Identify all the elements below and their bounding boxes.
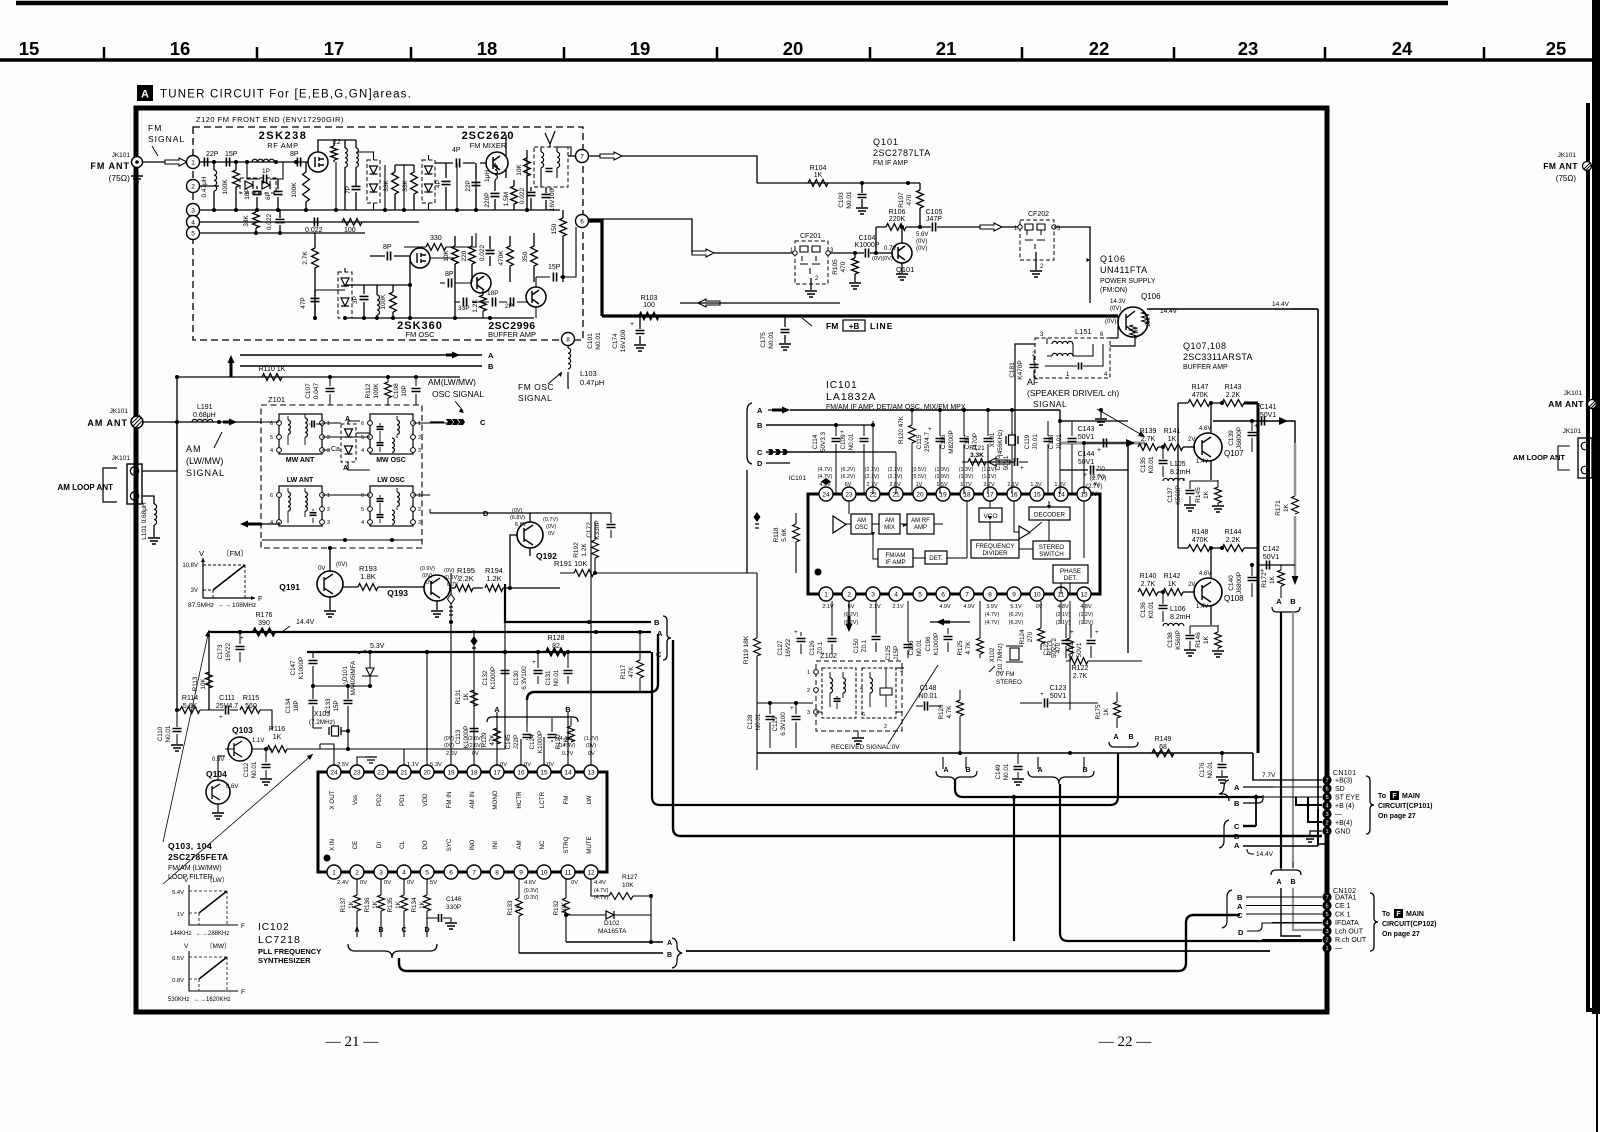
svg-text:FM MIXER: FM MIXER	[470, 141, 507, 150]
svg-text:(0V): (0V)	[1105, 319, 1116, 325]
wire input row	[199, 161, 306, 163]
svg-text:NC: NC	[539, 840, 546, 849]
svg-text:C136: C136	[1140, 602, 1147, 618]
svg-text:19: 19	[939, 491, 947, 498]
CN101 pin 3 —	[1322, 809, 1331, 818]
open arrow on +B	[698, 299, 720, 307]
svg-text:(10.7MHz): (10.7MHz)	[997, 643, 1004, 672]
svg-text:8P: 8P	[445, 271, 454, 278]
svg-text:C176: C176	[1199, 762, 1206, 778]
svg-text:(1.9V): (1.9V)	[935, 474, 950, 480]
svg-text:C138: C138	[1167, 632, 1174, 648]
svg-text:21: 21	[400, 769, 408, 776]
inductor L103 0.47uH	[567, 346, 569, 348]
svg-text:(2.1V): (2.1V)	[1056, 612, 1071, 618]
svg-text:0V: 0V	[318, 566, 325, 572]
svg-text:(2.1V): (2.1V)	[1056, 620, 1071, 626]
CN102 pin 5 CK 1	[1322, 909, 1331, 918]
svg-text:CIRCUIT(CP102): CIRCUIT(CP102)	[1382, 921, 1436, 928]
svg-text:CK 1: CK 1	[1335, 912, 1351, 919]
svg-text:+: +	[1095, 629, 1099, 636]
svg-text:C120: C120	[995, 455, 1002, 471]
svg-text:R149: R149	[1155, 736, 1172, 743]
svg-text:N0.01: N0.01	[916, 639, 923, 656]
ruler tick marks	[103, 47, 106, 60]
svg-text:23: 23	[845, 491, 853, 498]
svg-text:22: 22	[1089, 38, 1110, 59]
svg-text:JK101: JK101	[1563, 428, 1582, 435]
svg-text:C148: C148	[920, 685, 937, 692]
svg-text:3: 3	[418, 448, 421, 454]
svg-text:(0V): (0V)	[512, 508, 523, 514]
svg-text:C112: C112	[243, 762, 250, 777]
svg-text:470: 470	[840, 261, 847, 272]
svg-text:L106: L106	[1170, 606, 1186, 613]
svg-text:1: 1	[418, 421, 421, 427]
svg-text:MW ANT: MW ANT	[286, 457, 315, 464]
svg-text:Q101: Q101	[873, 137, 899, 147]
svg-text:1.2K: 1.2K	[472, 299, 479, 313]
diode pair dashed box	[240, 178, 276, 193]
IC101 pin 10	[1030, 587, 1044, 601]
svg-text:Z120 FM FRONT END (ENV1729: Z120 FM FRONT END (ENV17290GIR)	[196, 115, 344, 124]
svg-text:1.4V: 1.4V	[1196, 604, 1208, 610]
svg-text:CF202: CF202	[1028, 211, 1049, 218]
svg-text:5.3V: 5.3V	[370, 643, 385, 650]
node marker R119 top	[754, 512, 761, 522]
svg-text:5.6K: 5.6K	[781, 528, 788, 542]
svg-text:(0V): (0V)	[336, 562, 347, 568]
svg-text:FM/AM (LW/MW): FM/AM (LW/MW)	[168, 865, 222, 872]
CN101 right bracket labels	[1219, 780, 1229, 801]
transistor Q193	[424, 575, 450, 601]
svg-text:6: 6	[361, 493, 364, 499]
svg-text:(456KHz): (456KHz)	[997, 430, 1004, 457]
svg-text:47P: 47P	[300, 297, 307, 309]
svg-text:— 21 —: — 21 —	[325, 1034, 380, 1050]
svg-text:220: 220	[461, 250, 468, 261]
svg-text:4.6V: 4.6V	[524, 880, 536, 886]
svg-text:C150: C150	[853, 638, 860, 654]
svg-text:R117: R117	[620, 664, 627, 679]
svg-text:(1.3V): (1.3V)	[959, 467, 974, 473]
IC102 pin 8 INI	[490, 865, 504, 879]
svg-text:C: C	[757, 448, 763, 457]
svg-text:6.5V: 6.5V	[172, 956, 184, 962]
svg-text:C114: C114	[812, 434, 819, 449]
wire pin6 thick to FM+B	[588, 221, 602, 316]
svg-text:14.3V: 14.3V	[1110, 299, 1126, 305]
svg-text:SYNTHESIZER: SYNTHESIZER	[258, 956, 311, 965]
hatched AF wire	[1060, 442, 1145, 445]
svg-text:R121: R121	[969, 445, 985, 452]
Z102 transformer B	[862, 668, 896, 718]
bus A2/B2 down	[1060, 784, 1322, 941]
wire osc gate	[345, 258, 534, 318]
svg-text:C134: C134	[285, 698, 292, 714]
A B C D bracket left of IC101	[747, 403, 752, 464]
svg-text:A: A	[488, 351, 494, 360]
svg-text:PLL FREQUENCY: PLL FREQUENCY	[258, 947, 321, 956]
svg-text:16V22: 16V22	[225, 642, 232, 661]
transformer LW ANT	[279, 486, 322, 526]
wire CF202 out	[1054, 227, 1090, 303]
svg-text:L103: L103	[580, 369, 597, 378]
svg-text:50V1: 50V1	[1076, 642, 1083, 657]
svg-text:OSC: OSC	[855, 525, 869, 531]
svg-text:(4.7V): (4.7V)	[594, 888, 609, 894]
svg-text:X OUT: X OUT	[329, 790, 336, 809]
svg-text:1.7V: 1.7V	[960, 482, 972, 488]
long vertical buses right	[1257, 403, 1260, 565]
svg-text:C: C	[1234, 822, 1240, 831]
svg-text:(0V): (0V)	[916, 239, 927, 245]
svg-text:LINE: LINE	[870, 321, 893, 331]
facing page frame edge	[1588, 103, 1600, 1010]
svg-text:100K: 100K	[373, 383, 380, 399]
svg-text:1: 1	[332, 869, 336, 876]
svg-text:5: 5	[918, 591, 922, 598]
svg-text:1V: 1V	[916, 482, 923, 488]
IC102 pin 9 AM	[514, 865, 528, 879]
svg-text:2.4V: 2.4V	[337, 880, 349, 886]
svg-text:A: A	[1113, 734, 1118, 741]
svg-text:R120 47K: R120 47K	[898, 415, 905, 444]
svg-text:CN101: CN101	[1333, 770, 1356, 777]
svg-text:K1000P: K1000P	[933, 633, 940, 655]
svg-text:D102: D102	[604, 920, 620, 927]
svg-text:8: 8	[566, 336, 570, 343]
svg-text:N0.01: N0.01	[848, 433, 855, 450]
svg-text:FM: FM	[148, 123, 162, 133]
svg-text:11: 11	[565, 869, 572, 876]
svg-text:JK101: JK101	[1564, 390, 1583, 397]
CN102 pin 7 DATA1	[1322, 892, 1331, 901]
svg-text:C131: C131	[545, 670, 552, 686]
svg-text:50V1: 50V1	[1078, 459, 1094, 466]
svg-text:Q103: Q103	[232, 725, 253, 735]
svg-text:Z101: Z101	[268, 395, 285, 404]
front end pin 6	[576, 215, 589, 228]
svg-text:D: D	[1238, 928, 1244, 937]
IC102 pin 23 Vss	[350, 765, 364, 779]
svg-text:N0.01: N0.01	[755, 713, 762, 730]
svg-text:GND: GND	[1335, 829, 1351, 836]
svg-text:(FM:ON): (FM:ON)	[1100, 287, 1127, 294]
svg-text:19: 19	[630, 38, 651, 59]
svg-text:9: 9	[519, 869, 523, 876]
svg-text:AM: AM	[885, 518, 894, 524]
svg-text:1.5M: 1.5M	[503, 192, 510, 206]
IC101 pin 1	[819, 587, 833, 601]
svg-text:CE 1: CE 1	[1335, 903, 1351, 910]
svg-text:2.2K: 2.2K	[458, 574, 473, 583]
svg-text:+: +	[630, 321, 634, 328]
svg-text:FM/AM: FM/AM	[886, 552, 906, 559]
svg-text:N0.01: N0.01	[251, 761, 258, 778]
CN101 pin 7 +B(3)	[1322, 775, 1331, 784]
svg-text:2.2K: 2.2K	[1226, 537, 1241, 544]
svg-text:CE: CE	[352, 841, 359, 850]
svg-text:F: F	[258, 596, 262, 603]
svg-text:18: 18	[477, 38, 498, 59]
svg-text:50V2.2: 50V2.2	[1051, 638, 1058, 658]
svg-text:330: 330	[430, 235, 442, 242]
svg-text:R140: R140	[1140, 573, 1157, 580]
svg-text:3: 3	[1325, 812, 1328, 818]
svg-text:100K: 100K	[291, 182, 298, 198]
svg-text:R137: R137	[340, 897, 347, 913]
varactor dashed box1	[367, 160, 380, 203]
svg-text:(1.1V): (1.1V)	[982, 474, 997, 480]
svg-text:C113: C113	[455, 729, 462, 744]
svg-text:4.6V: 4.6V	[1199, 571, 1211, 577]
svg-text:LW ANT: LW ANT	[287, 477, 314, 484]
svg-text:0V: 0V	[472, 751, 479, 757]
svg-text:C146: C146	[446, 896, 462, 903]
svg-text:8: 8	[495, 869, 499, 876]
IC101 pin 11	[1054, 587, 1068, 601]
svg-text:C141: C141	[1260, 404, 1277, 411]
svg-text:1V: 1V	[177, 912, 184, 918]
svg-text:5: 5	[361, 435, 364, 441]
svg-text:SIGNAL: SIGNAL	[1033, 399, 1067, 409]
svg-text:C172: C172	[586, 522, 593, 538]
right page black bar	[1592, 0, 1600, 1014]
svg-text:To: To	[1382, 911, 1390, 918]
svg-text:4.6V: 4.6V	[1199, 426, 1211, 432]
transistor Q101	[892, 243, 912, 263]
svg-text:8: 8	[988, 591, 992, 598]
svg-text:20: 20	[783, 38, 804, 59]
svg-text:R175: R175	[1095, 704, 1102, 720]
svg-text:(6.2V): (6.2V)	[841, 467, 856, 473]
svg-text:7P: 7P	[345, 186, 352, 194]
svg-text:Z102: Z102	[820, 651, 837, 660]
svg-text:INI: INI	[492, 841, 499, 849]
wire FM ANT to front end	[142, 161, 193, 163]
svg-text:16V100: 16V100	[620, 329, 627, 352]
wire pin6 branch	[588, 219, 795, 253]
svg-text:0.68μH: 0.68μH	[193, 412, 216, 419]
IC101 pin 13	[1077, 487, 1091, 501]
IC101 block AM OSC	[851, 514, 872, 534]
svg-text:—: —	[1335, 946, 1342, 953]
coil tank1	[345, 148, 347, 167]
svg-text:STEREO: STEREO	[996, 679, 1022, 686]
svg-text:0V: 0V	[571, 880, 578, 886]
svg-text:ST EYE: ST EYE	[1335, 795, 1360, 802]
svg-text:FM IF AMP: FM IF AMP	[873, 160, 908, 167]
transformer LW OSC	[370, 486, 413, 526]
svg-text:+: +	[240, 635, 244, 642]
CN101 brace + note	[1366, 776, 1374, 834]
svg-text:C108: C108	[393, 383, 400, 399]
svg-text:22P: 22P	[206, 151, 219, 158]
svg-text:R112: R112	[365, 383, 372, 398]
svg-text:R144: R144	[1225, 529, 1242, 536]
svg-text:5: 5	[425, 869, 429, 876]
svg-text:Vss: Vss	[352, 795, 359, 805]
svg-text:FM IN: FM IN	[446, 792, 453, 809]
svg-text:TUNER CIRCUIT For [E,EB,G,GN]: TUNER CIRCUIT For [E,EB,G,GN]areas.	[160, 89, 412, 101]
svg-text:2.1V: 2.1V	[869, 604, 881, 610]
svg-text:+: +	[1040, 691, 1044, 698]
svg-text:87.5MHz: 87.5MHz	[188, 602, 214, 609]
svg-text:14.4V: 14.4V	[296, 619, 315, 626]
svg-text:0V: 0V	[547, 762, 554, 768]
IC102 pin 1 X IN	[327, 865, 341, 879]
svg-text:1K: 1K	[1269, 575, 1276, 584]
svg-text:10.8V: 10.8V	[182, 563, 198, 569]
CN102 pin 2 R.ch OUT	[1322, 935, 1331, 944]
svg-text:4P: 4P	[435, 180, 442, 188]
IC101 block FM/AM IF AMP	[878, 549, 913, 567]
svg-text:C110: C110	[157, 726, 164, 741]
svg-text:AMP: AMP	[914, 525, 927, 531]
CN101 pin 2 +B(4)	[1322, 818, 1331, 827]
svg-text:(1.9V): (1.9V)	[935, 467, 950, 473]
brace AB right	[672, 938, 682, 968]
svg-text:1.5V: 1.5V	[936, 482, 948, 488]
svg-text:A: A	[141, 89, 149, 101]
svg-text:(6.2V): (6.2V)	[841, 474, 856, 480]
svg-text:(4.7V): (4.7V)	[818, 467, 833, 473]
svg-text:4.9V: 4.9V	[963, 604, 975, 610]
svg-text:150: 150	[551, 223, 558, 234]
front end pin 8	[562, 333, 575, 346]
CN101 wires	[1253, 779, 1322, 781]
svg-text:4: 4	[361, 448, 364, 454]
svg-text:470: 470	[906, 194, 913, 205]
IC101 signal wires A B C D	[790, 409, 1060, 411]
svg-text:B: B	[1234, 799, 1240, 808]
svg-text:N0.01: N0.01	[1003, 763, 1010, 780]
callout arrow AF	[1097, 409, 1142, 435]
svg-text:R128: R128	[548, 635, 565, 642]
IC102 pin 21 PD1	[397, 765, 411, 779]
svg-text:R124: R124	[1019, 629, 1026, 645]
svg-text:R133: R133	[507, 900, 514, 916]
long horizontal received-signal bus	[757, 752, 1253, 754]
svg-text:IC102: IC102	[258, 922, 290, 933]
svg-text:50V1: 50V1	[1003, 455, 1010, 470]
svg-text:18P: 18P	[487, 290, 499, 297]
svg-text:On page 27: On page 27	[1382, 931, 1420, 938]
coil tank2	[356, 148, 358, 167]
svg-text:220K: 220K	[889, 216, 906, 223]
bus vertical 1 to CN101	[652, 652, 1118, 805]
svg-text:(7.2MHz): (7.2MHz)	[309, 719, 335, 726]
svg-text:C143: C143	[1078, 426, 1095, 433]
svg-text:10K: 10K	[443, 250, 450, 262]
IC102 pin 16 HCTR	[514, 765, 528, 779]
FET 2SK360	[410, 248, 430, 268]
svg-text:SIGNAL: SIGNAL	[518, 393, 552, 403]
svg-text:SD: SD	[1335, 786, 1345, 793]
svg-text:R176: R176	[256, 612, 273, 619]
svg-text:10: 10	[540, 869, 548, 876]
svg-text:0V: 0V	[360, 880, 367, 886]
svg-text:B: B	[1234, 832, 1240, 841]
svg-text:N0.01: N0.01	[595, 332, 602, 350]
svg-text:F: F	[1396, 911, 1401, 918]
svg-text:25V4.7: 25V4.7	[216, 703, 238, 710]
svg-text:R171: R171	[1275, 500, 1282, 516]
svg-text:1K: 1K	[1203, 490, 1210, 499]
svg-text:〔FM〕: 〔FM〕	[222, 549, 248, 558]
svg-text:J0.01: J0.01	[1032, 434, 1039, 450]
svg-text:A: A	[343, 465, 348, 472]
svg-text:R129: R129	[481, 732, 488, 748]
wire pin7 to IF strip	[588, 156, 757, 183]
svg-text:(2.1V): (2.1V)	[865, 474, 880, 480]
svg-text:R115: R115	[243, 695, 259, 702]
svg-text:+B: +B	[849, 322, 860, 331]
svg-text:4.8V: 4.8V	[1080, 604, 1092, 610]
svg-text:DI: DI	[376, 842, 383, 848]
svg-text:IFDATA: IFDATA	[1335, 920, 1359, 927]
IC102 pin 4 CL	[397, 865, 411, 879]
svg-text:Q107,108: Q107,108	[1183, 341, 1227, 351]
IC101 pin 4	[889, 587, 903, 601]
svg-text:18P: 18P	[244, 188, 251, 200]
IC102 pin 6 SYC	[444, 865, 458, 879]
svg-text:1K: 1K	[1103, 707, 1110, 716]
svg-text:△D101: △D101	[342, 666, 349, 686]
svg-text:2SC3311ARSTA: 2SC3311ARSTA	[1183, 352, 1253, 362]
svg-text:B: B	[1290, 879, 1295, 886]
mixer out transformer dashed	[534, 147, 568, 187]
svg-text:3: 3	[327, 520, 330, 526]
svg-text:6: 6	[361, 421, 364, 427]
svg-text:0.022: 0.022	[479, 244, 486, 261]
svg-text:R143: R143	[1225, 384, 1242, 391]
svg-text:F: F	[241, 923, 245, 930]
svg-text:PHASE: PHASE	[1060, 568, 1081, 575]
svg-text:LA1832A: LA1832A	[826, 391, 876, 403]
svg-text:12: 12	[1080, 591, 1088, 598]
svg-text:25V4.7: 25V4.7	[924, 432, 931, 452]
svg-text:5: 5	[361, 507, 364, 513]
svg-text:1: 1	[824, 591, 828, 598]
front end pin 5	[187, 227, 200, 240]
svg-text:(6.2V): (6.2V)	[1009, 612, 1024, 618]
svg-text:2: 2	[191, 183, 195, 190]
bold left arrow	[247, 523, 256, 526]
svg-text:R113: R113	[192, 676, 199, 691]
svg-text:4: 4	[1325, 920, 1328, 926]
svg-text:1K: 1K	[463, 692, 470, 701]
svg-text:C128: C128	[747, 714, 754, 730]
svg-text:(0.6V): (0.6V)	[444, 575, 459, 581]
wire AM ANT to Z101	[143, 421, 262, 423]
svg-text:(LW/MW): (LW/MW)	[186, 456, 223, 466]
svg-text:+: +	[1070, 629, 1074, 636]
svg-text:3: 3	[327, 448, 330, 454]
svg-text:R191 10K: R191 10K	[554, 559, 587, 568]
svg-text:(0V): (0V)	[546, 524, 557, 530]
IC101 pin 3	[866, 587, 880, 601]
transformer MW OSC	[370, 414, 413, 454]
svg-text:BUFFER AMP: BUFFER AMP	[1183, 364, 1228, 371]
svg-text:15: 15	[540, 769, 548, 776]
bus brace	[663, 616, 671, 660]
svg-text:K1000P: K1000P	[537, 731, 544, 753]
svg-text:0V: 0V	[384, 880, 391, 886]
svg-text:4.8V: 4.8V	[1057, 604, 1069, 610]
svg-text:7: 7	[965, 591, 969, 598]
